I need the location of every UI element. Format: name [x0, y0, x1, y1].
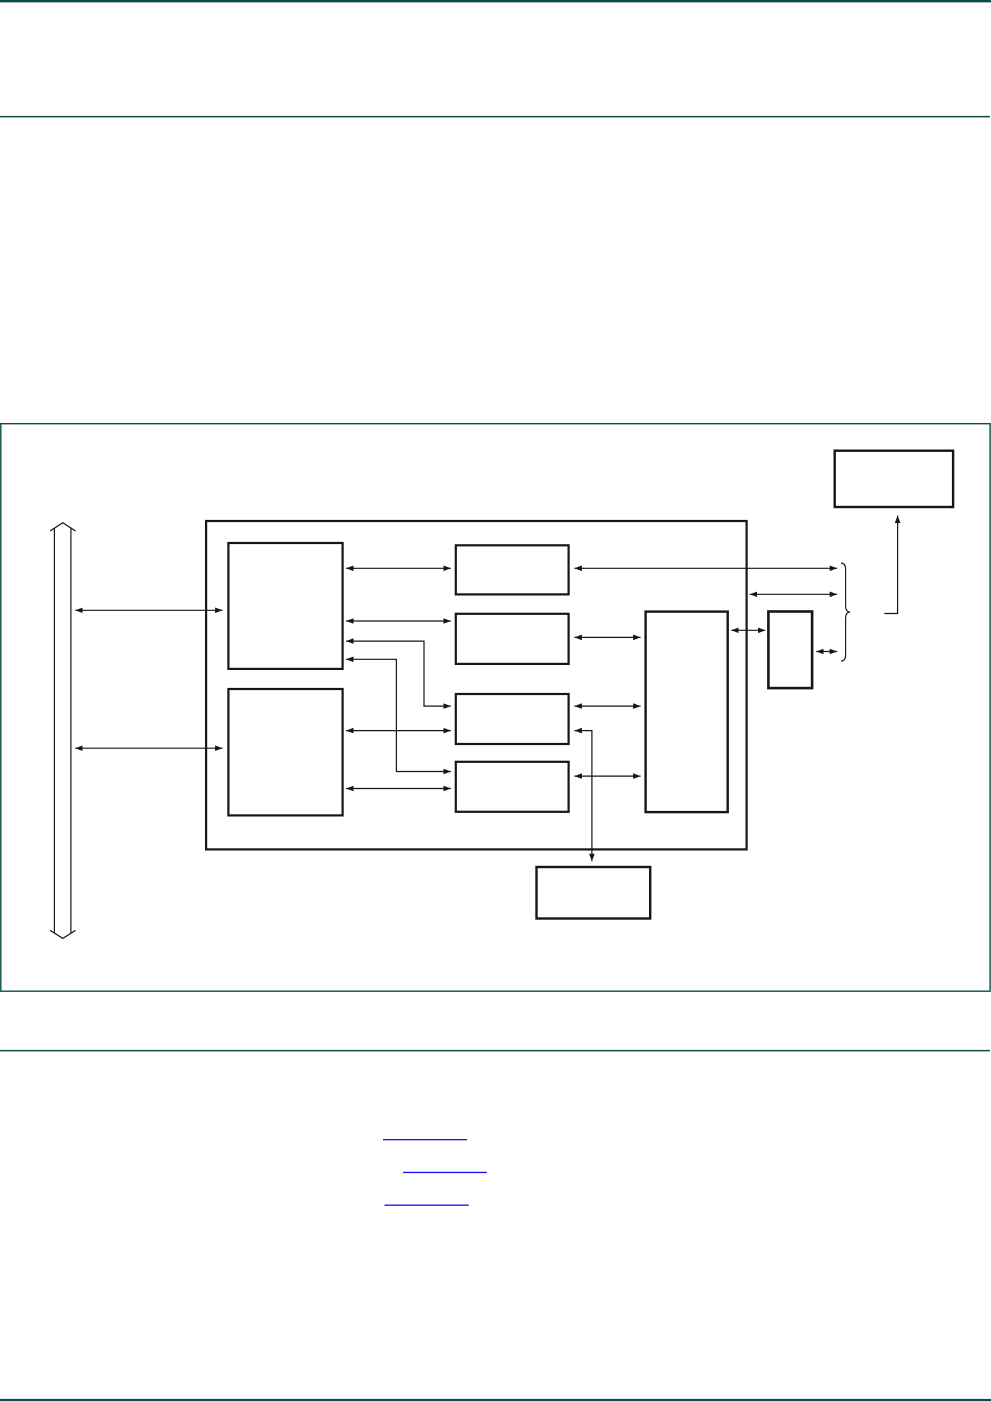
link underline 3 [385, 1205, 469, 1206]
figure frame [1, 424, 990, 992]
bus arrow top chevron [50, 523, 76, 531]
block M2 [456, 614, 569, 664]
tall block (right column) [646, 612, 728, 813]
link underline 1 [383, 1139, 467, 1140]
header top bar [0, 0, 991, 2]
wire small box to brace [816, 651, 837, 653]
wire M3 to tall block [574, 705, 640, 707]
wire tall block to small box [731, 629, 765, 631]
bottom box [537, 867, 651, 919]
footer bar [0, 1399, 991, 1401]
block M3 [456, 694, 569, 744]
wire B to M4 [346, 788, 451, 790]
wire B to M3 [346, 730, 451, 732]
block A (upper left) [228, 543, 342, 669]
section rule [0, 1050, 990, 1052]
block B (lower left) [228, 689, 342, 815]
wire chip edge to brace [750, 593, 838, 595]
top right box [835, 451, 953, 507]
wire bus to block B [75, 747, 222, 749]
wire A to M3 (stepped) [346, 641, 451, 706]
link underline 2 [403, 1172, 487, 1173]
bus arrow shaft right line [70, 528, 72, 933]
chip boundary [206, 521, 747, 849]
wire bus to block A [75, 609, 222, 611]
wire M3 to bottom box (stepped) [574, 731, 592, 862]
wire A to M4 (stepped) [346, 659, 451, 771]
wire M2 to tall block [574, 636, 640, 638]
block M1 [456, 545, 569, 594]
bus arrow shaft left line [53, 528, 55, 933]
wire M4 to tall block [574, 775, 640, 777]
wire A to M2 [346, 620, 451, 622]
wire to top right box (stepped) [884, 516, 897, 614]
wire M1 to brace [574, 567, 837, 569]
wire A to M1 [346, 567, 451, 569]
block M4 [456, 762, 569, 812]
external small box [768, 612, 812, 689]
header rule [0, 116, 990, 118]
brace [841, 563, 850, 661]
bus arrow bottom chevron [50, 930, 76, 938]
